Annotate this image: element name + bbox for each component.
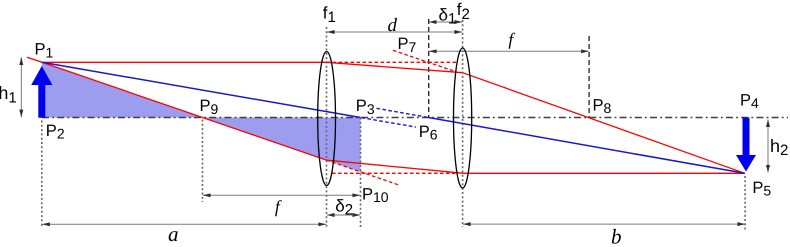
red dashed: undeviated extension L1 to L2 (327, 61, 457, 63)
beam fill (shaded light-blue bowtie region between steep red ray and axis) (42, 62, 361, 172)
red ray: L2 through P8 to P5 (463, 73, 745, 174)
svg-text:P2: P2 (46, 122, 65, 142)
node P5 vertical dotted line (744, 176, 746, 230)
svg-text:f2: f2 (457, 0, 470, 23)
lens L2 (f2) (454, 48, 472, 188)
focal point F' vertical dashed line (P8) (588, 36, 590, 118)
dimension a (42, 223, 326, 225)
svg-text:d: d (388, 15, 398, 36)
svg-text:f: f (508, 29, 515, 49)
red ray: L1 to L2 segment (327, 62, 463, 72)
dimension delta2 (327, 214, 360, 216)
optical axis (42, 117, 788, 119)
svg-text:f1: f1 (323, 3, 336, 26)
svg-text:δ1: δ1 (439, 5, 457, 27)
red dashed: backward extension of exit horizontal through P10 (332, 172, 457, 174)
image arrow (P4-P5) (736, 118, 756, 172)
svg-text:h1: h1 (0, 83, 17, 106)
red ray: L1 to L2 lower segment (327, 160, 463, 173)
svg-text:h2: h2 (770, 136, 788, 159)
red dashed: continuation of focal ray to P10 (327, 160, 399, 185)
red ray: parallel ray P1 to L1 (42, 61, 327, 63)
blue ray: nodal ray P1 to P3 (42, 62, 361, 117)
svg-text:P1: P1 (35, 41, 54, 61)
red dashed: backward extension of exit ray to P7 (393, 50, 455, 71)
lens L1 axis vertical dotted line (326, 27, 328, 228)
svg-text:P6: P6 (419, 123, 438, 143)
svg-text:P5: P5 (752, 179, 771, 199)
dimension f (right, H' to F') (429, 50, 589, 52)
principal plane H vertical dotted line (P3/P10) (360, 118, 362, 228)
dimension delta1 (429, 21, 462, 23)
lens L1 (f1) (318, 52, 336, 186)
svg-text:P10: P10 (362, 186, 389, 206)
dimension d (327, 31, 462, 33)
red ray: exit horizontal to P5 (463, 172, 745, 174)
svg-text:P4: P4 (740, 92, 759, 112)
svg-text:P9: P9 (200, 97, 219, 117)
red ray: focal ray P1 through P9 to L1 (27, 57, 327, 160)
svg-text:P8: P8 (593, 97, 612, 117)
lens L2 axis vertical dotted line (462, 20, 464, 227)
blue ray: nodal exit ray P6 to P5 (429, 118, 745, 174)
object arrow (P1-P2) (31, 66, 52, 118)
blue dashed: forward extension beyond P3 (362, 118, 417, 127)
node P9 vertical dotted line (202, 120, 204, 203)
svg-text:P7: P7 (398, 35, 417, 55)
svg-text:P3: P3 (356, 97, 375, 117)
dimension b (463, 223, 745, 225)
node P2 vertical dotted line (41, 121, 43, 229)
dimension f (left, P9 to H) (203, 194, 360, 196)
principal plane H' vertical dashed line (P6/P7) (428, 19, 430, 118)
dimension h1 (20, 57, 22, 117)
blue dashed: backward extension toward P6 (377, 108, 429, 117)
svg-text:b: b (611, 224, 622, 247)
svg-text:a: a (168, 222, 179, 246)
svg-text:δ2: δ2 (335, 197, 353, 219)
svg-text:f: f (275, 196, 282, 216)
dimension h2 (767, 120, 769, 173)
